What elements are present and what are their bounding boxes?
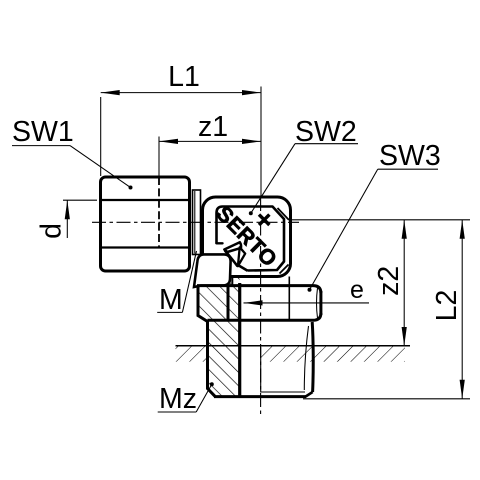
dimension d extension: [63, 199, 97, 201]
section hatch nut left strip: [198, 287, 240, 321]
cutting cone funnel: [224, 242, 241, 252]
stud bottom chamfer right: [306, 392, 313, 397]
z1 arrow left: [159, 139, 178, 144]
z1 arrow right: [242, 139, 261, 144]
inner face BL chamfer: [238, 265, 248, 271]
svg-text:d: d: [36, 223, 68, 239]
z2 arrow up: [402, 220, 407, 239]
L1 arrow right: [242, 90, 261, 95]
tube end hidden line: [158, 177, 160, 248]
nut SW1 chamfer line top: [101, 199, 189, 201]
SW1 leader dot: [129, 186, 133, 190]
SW1 underline: [12, 145, 70, 147]
hex nut e left face (sectioned): [198, 286, 208, 322]
dimension L1 extension right: [260, 87, 262, 198]
elbow body outer: [203, 197, 291, 277]
svg-text:z1: z1: [198, 111, 228, 143]
funnel sweep curve: [225, 251, 238, 267]
hex nut e top edge: [197, 286, 321, 293]
SW2 underline: [295, 143, 358, 145]
svg-text:SW3: SW3: [379, 140, 441, 172]
section hatch cone sliver: [226, 262, 240, 286]
corner accent bottom-right: [280, 265, 289, 274]
L2 arrow down: [460, 380, 465, 399]
svg-text:M: M: [159, 284, 183, 316]
L2 arrow up: [460, 220, 465, 239]
stud left edge: [208, 322, 216, 397]
nut SW1 body: [101, 177, 190, 271]
wall section hatch right of centerline: [261, 346, 405, 362]
dimension L1 line: [101, 92, 261, 94]
thread minor line: [304, 326, 308, 390]
d arrow up: [65, 200, 70, 219]
neck left edge: [231, 277, 233, 286]
dimension z1 line: [159, 140, 261, 142]
cone blob: [194, 254, 231, 287]
dimension d line: [66, 200, 68, 238]
hex nut facet curve right: [317, 288, 318, 318]
wall section hatch left of stud: [176, 346, 208, 362]
e arrow left: [244, 300, 263, 305]
hex nut e bottom edge: [208, 313, 321, 320]
Mz leader dot: [210, 382, 214, 386]
dimension L1 extension left: [100, 97, 102, 176]
svg-text:L2: L2: [431, 290, 463, 322]
dimension e line: [244, 302, 370, 304]
svg-text:Mz: Mz: [159, 383, 197, 415]
section hatch stud left strip: [208, 321, 240, 396]
SW2 leader: [251, 144, 295, 214]
plus mark: [259, 215, 269, 225]
Mz underline: [158, 411, 197, 413]
elbow body inner face: [217, 207, 285, 271]
vertical centerline: [260, 197, 262, 415]
Mz leader: [196, 384, 212, 412]
L1 arrow left: [101, 90, 120, 95]
nut bore edge in section: [227, 287, 230, 320]
neck right edge / facet line: [288, 277, 290, 320]
section plane line: [238, 283, 241, 397]
dimension z1 extension: [158, 137, 160, 178]
SW3 leader: [310, 169, 378, 290]
M leader: [182, 251, 196, 312]
svg-text:e: e: [350, 276, 364, 304]
horizontal centerline: [92, 221, 299, 223]
stud right edge: [312, 322, 313, 392]
svg-text:SW1: SW1: [12, 116, 74, 148]
thread boundary at centerline: [260, 347, 262, 393]
SW3 underline: [378, 168, 438, 170]
dimension z2 line: [403, 220, 405, 346]
z2 arrow down: [402, 327, 407, 346]
SW2 leader dot: [249, 211, 253, 215]
bottom extension line for L2: [303, 398, 470, 400]
stud bottom edge: [214, 395, 306, 398]
M underline: [157, 311, 182, 313]
stud chamfer circle line: [261, 391, 305, 393]
corner accent top-right: [278, 208, 290, 220]
SW3 leader dot: [308, 288, 312, 292]
top extension line for z2 L2: [292, 219, 470, 221]
svg-text:z2: z2: [373, 266, 405, 296]
nut SW1 chamfer line bottom: [101, 246, 189, 248]
SW1 leader: [70, 146, 131, 188]
washer ring: [193, 190, 201, 255]
dimension L2 line: [461, 220, 463, 399]
inner face BL stub: [216, 242, 222, 244]
wall surface line: [176, 345, 411, 347]
funnel triangle: [238, 247, 245, 266]
svg-text:L1: L1: [168, 61, 200, 93]
hex nut e right edge: [319, 291, 322, 315]
